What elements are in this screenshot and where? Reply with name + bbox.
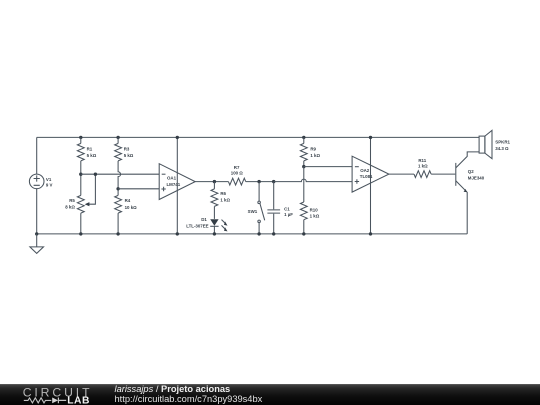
svg-text:SW1: SW1 (248, 209, 258, 214)
svg-text:9 V: 9 V (46, 183, 53, 188)
svg-text:http://circuitlab.com/c7n3py93: http://circuitlab.com/c7n3py939s4bx (115, 394, 263, 404)
svg-text:R11: R11 (418, 158, 426, 163)
svg-text:10 kΩ: 10 kΩ (125, 205, 138, 210)
resistor R9 1k (300, 136, 320, 169)
op-amp OA1 LM741 (159, 164, 195, 200)
resistor R10 1k (300, 167, 319, 236)
footer credit text (115, 384, 263, 404)
transistor Q2 MJE340 NPN (456, 152, 485, 234)
junction dot OA1 output / R6 (213, 180, 216, 183)
wire OA1 supply pins to rails (176, 136, 179, 236)
resistor R11 1k (414, 158, 431, 178)
node A junction dot (79, 173, 82, 176)
svg-text:R6: R6 (220, 191, 226, 196)
wire node B to OA1 non-inverting input (118, 188, 159, 190)
wire OA2 supply pins to rails (369, 136, 372, 236)
wire OA1 output to R7 (195, 181, 228, 183)
capacitor C1 1uF (267, 180, 293, 236)
wire R3 to R4 with hop over crossing (118, 161, 120, 196)
svg-text:LM741: LM741 (167, 182, 181, 187)
LED D1 LTL-307EE (186, 217, 227, 236)
resistor R7 100 ohm (228, 165, 245, 185)
wire R9/R10 node to OA2 inverting input (304, 166, 352, 168)
svg-text:1 kΩ: 1 kΩ (310, 214, 320, 219)
wire R11 to Q2 base (431, 173, 455, 175)
wire node A to OA1 inverting input (81, 173, 159, 175)
svg-text:OA1: OA1 (167, 176, 177, 181)
svg-text:SPKR1: SPKR1 (495, 140, 510, 145)
svg-text:R3: R3 (124, 147, 130, 152)
svg-text:Q2: Q2 (468, 169, 474, 174)
svg-text:OA2: OA2 (360, 168, 370, 173)
svg-text:LTL-307EE: LTL-307EE (186, 224, 208, 229)
svg-text:larissajps / Projeto acionas: larissajps / Projeto acionas (115, 384, 231, 394)
wire top supply rail (37, 136, 479, 138)
svg-text:R1: R1 (87, 147, 93, 152)
svg-text:D1: D1 (201, 217, 207, 222)
resistor R3 5k (115, 136, 134, 161)
svg-text:TL081: TL081 (360, 174, 373, 179)
svg-text:8 kΩ: 8 kΩ (65, 205, 75, 210)
svg-text:V1: V1 (46, 177, 52, 182)
svg-text:R5: R5 (69, 198, 75, 203)
svg-text:1 µF: 1 µF (284, 212, 293, 217)
wire R7 to SW1/C1 node (246, 181, 274, 183)
svg-text:5 kΩ: 5 kΩ (87, 153, 97, 158)
svg-text:C1: C1 (284, 206, 290, 211)
wire C1 node to OA2 non-inverting input with hop (274, 179, 352, 181)
resistor R1 5k (77, 136, 96, 161)
resistor R4 10k (115, 195, 137, 235)
svg-text:R7: R7 (234, 165, 240, 170)
wire OA2 output to R11 (389, 173, 414, 175)
node B junction dot (to OA1 + input) (116, 187, 119, 190)
svg-text:MJE340: MJE340 (468, 176, 485, 181)
footer bar (0, 384, 540, 405)
speaker SPKR1 34.3 ohm (479, 130, 510, 158)
svg-text:100 Ω: 100 Ω (231, 171, 244, 176)
voltage source V1 9V (29, 137, 52, 234)
CircuitLab logo (23, 385, 93, 405)
svg-text:R9: R9 (310, 146, 316, 151)
potentiometer R5 8k (65, 173, 97, 236)
wire bottom ground rail (37, 233, 468, 235)
svg-text:34.3 Ω: 34.3 Ω (495, 146, 509, 151)
svg-text:R4: R4 (125, 198, 131, 203)
svg-text:1 kΩ: 1 kΩ (310, 153, 320, 158)
switch SW1 (248, 180, 265, 236)
ground symbol (30, 232, 44, 253)
resistor R6 1k (211, 182, 231, 219)
svg-text:1 kΩ: 1 kΩ (418, 164, 428, 169)
svg-text:5 kΩ: 5 kΩ (124, 153, 134, 158)
op-amp OA2 TL081 (352, 156, 389, 192)
svg-text:R10: R10 (310, 208, 319, 213)
wire R1 to R5 (node A) (80, 161, 82, 196)
svg-text:LAB: LAB (67, 395, 90, 405)
svg-text:1 kΩ: 1 kΩ (220, 197, 230, 202)
